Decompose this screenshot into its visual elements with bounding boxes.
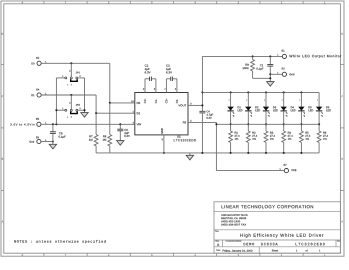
resistor R6 (317, 131, 321, 143)
note text (14, 240, 105, 243)
wire to E7 (216, 170, 284, 172)
wire LED D2 cathode (247, 111, 249, 131)
LED D6 (318, 92, 320, 106)
capacitor C2 (144, 79, 146, 93)
IC U1 LTC3202EDD body (135, 93, 188, 135)
wire LED D4 cathode (283, 111, 285, 131)
LED D1 (230, 91, 232, 93)
resistor R3 (264, 131, 268, 143)
capacitor C6 (119, 124, 121, 129)
wire R9 bottom to C1 (253, 77, 271, 79)
wire IC GND pin to ground bus (163, 135, 165, 153)
LED D5 (300, 91, 302, 93)
wire LED D1 cathode (230, 111, 232, 131)
node D0 junction (70, 62, 72, 64)
capacitor C1 (269, 56, 271, 64)
wire VOUT (188, 104, 202, 106)
wire LED D5 cathode (300, 111, 302, 131)
jumper JP2 (65, 109, 67, 111)
wire D0 net (41, 62, 110, 64)
terminal E6 (37, 139, 41, 143)
wire LED anode bus (202, 91, 319, 93)
wire LED D3 cathode (265, 111, 267, 131)
wire D1 net (41, 94, 96, 96)
resistor R2 (246, 131, 250, 143)
node D1 junction (70, 94, 72, 96)
resistor R8 (109, 103, 111, 135)
title block (214, 202, 340, 253)
wire JP1 pin2 stub (70, 63, 72, 77)
wire FB bus (216, 123, 319, 125)
ground symbol on bus (189, 153, 191, 155)
capacitor C8 (52, 124, 54, 132)
terminal E1 (282, 54, 286, 58)
ground below C8 (49, 144, 56, 149)
terminal E4 (37, 93, 41, 97)
wire JP2 pin2 stub (70, 95, 72, 109)
terminal E7 (284, 169, 288, 173)
wire FB net (188, 121, 216, 123)
resistor R9 (252, 56, 254, 59)
resistor R1 (229, 131, 233, 143)
capacitor C3 (165, 79, 167, 93)
wire LED D6 cathode (318, 111, 320, 131)
terminal E2 (37, 61, 41, 65)
wire JP2 pin3 (78, 109, 85, 111)
resistor R4 (282, 131, 286, 143)
LED D2 (247, 91, 249, 93)
resistor R7 (95, 113, 97, 134)
LED D3 (265, 91, 267, 93)
terminal E5 (37, 122, 41, 126)
jumper JP1 (65, 77, 67, 79)
capacitor C4 (199, 110, 205, 112)
wire E6 to C8 (41, 141, 53, 143)
wire VIN net (41, 123, 135, 125)
wire VIN bus to jumpers (55, 78, 57, 124)
node VIN junctions (52, 123, 54, 125)
terminal E3 (282, 72, 286, 76)
wire VOUT vertical riser (201, 56, 203, 111)
wire ground bus (96, 152, 319, 154)
wire JP1 pin3 to ground bus (78, 77, 85, 79)
resistor R5 (300, 131, 304, 143)
LED D4 (283, 91, 285, 93)
ground below C1 (267, 82, 274, 87)
wire to E1 (202, 55, 282, 57)
ground below JP2 pin3 (81, 113, 88, 118)
node VOUT junctions (201, 104, 203, 106)
ground below C6 (117, 141, 124, 146)
